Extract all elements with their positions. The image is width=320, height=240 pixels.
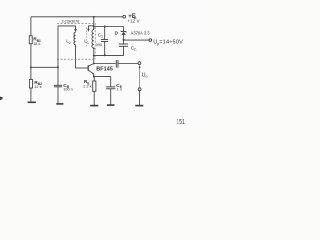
svg-text:12 k: 12 k: [34, 85, 41, 89]
svg-text:1: 1: [101, 34, 103, 38]
svg-text:o: o: [145, 75, 147, 79]
svg-text:.: .: [136, 48, 137, 52]
svg-text:2: 2: [69, 41, 71, 45]
svg-text:2.2 k: 2.2 k: [83, 85, 91, 89]
svg-text:18 k: 18 k: [33, 42, 40, 46]
svg-text:100 n: 100 n: [63, 88, 73, 92]
svg-text:1: 1: [87, 41, 89, 45]
svg-text:1 n: 1 n: [117, 88, 122, 92]
svg-text:2-23A3678: 2-23A3678: [62, 19, 80, 23]
svg-text:151: 151: [176, 118, 185, 126]
svg-text:300: 300: [96, 43, 102, 47]
svg-text:A370A 3.3: A370A 3.3: [131, 30, 151, 35]
svg-text:+12 V: +12 V: [127, 18, 140, 23]
svg-text:BF145: BF145: [96, 66, 113, 72]
svg-text:=14÷50V: =14÷50V: [159, 40, 183, 46]
